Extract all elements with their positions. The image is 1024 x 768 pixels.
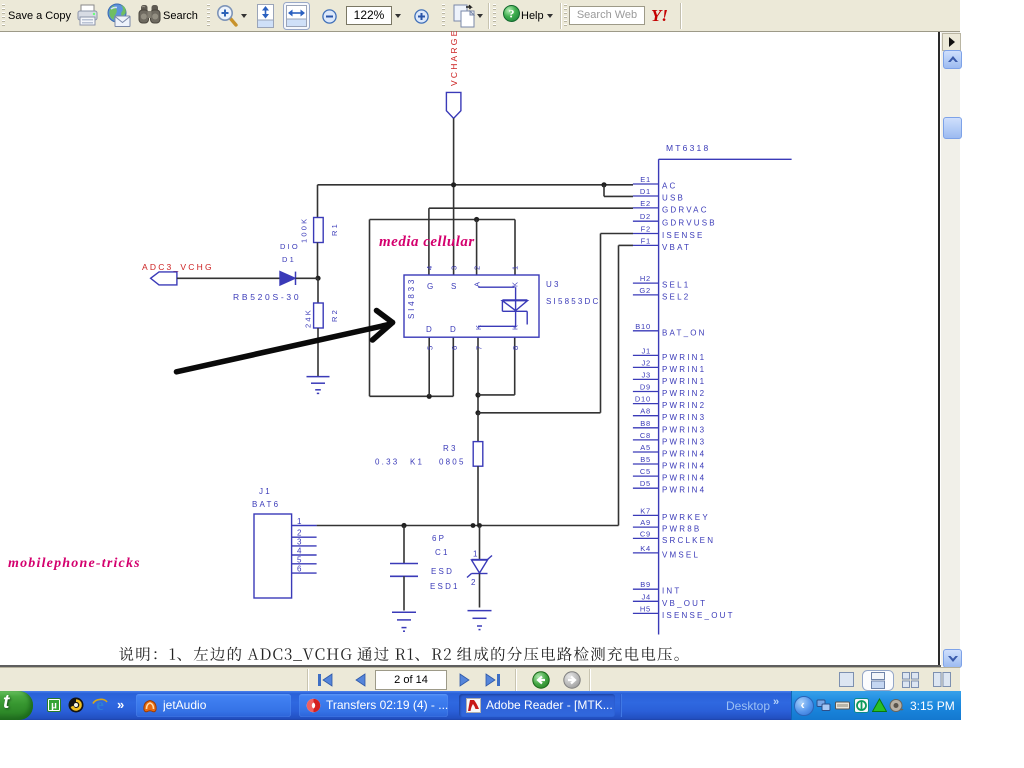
- svg-text:G2: G2: [639, 286, 651, 295]
- wire battery rail BAT+: [317, 525, 619, 527]
- MT6318 pin J4 VB_OUT: [633, 600, 659, 602]
- junction U3 pin2 on top edge: [474, 217, 479, 222]
- svg-text:24K: 24K: [304, 308, 313, 328]
- svg-text:SEL1: SEL1: [662, 281, 690, 290]
- wire C1 to ground: [403, 576, 405, 610]
- junction pin7/pin8: [475, 392, 480, 397]
- svg-text:D: D: [450, 325, 458, 334]
- svg-text:B5: B5: [640, 455, 651, 464]
- svg-text:2: 2: [471, 578, 478, 587]
- svg-text:J4: J4: [641, 592, 651, 601]
- svg-text:PWRIN1: PWRIN1: [662, 353, 706, 362]
- MT6318 pin K4 VMSEL: [633, 552, 659, 554]
- svg-text:BAT_ON: BAT_ON: [662, 328, 707, 337]
- svg-text:B10: B10: [635, 322, 651, 331]
- document white area: [0, 32, 938, 666]
- svg-text:B8: B8: [640, 419, 651, 428]
- svg-text:VB_OUT: VB_OUT: [662, 599, 707, 608]
- svg-text:5: 5: [426, 344, 435, 350]
- svg-text:5: 5: [297, 555, 304, 564]
- svg-text:D: D: [426, 325, 434, 334]
- MT6318 pin E2 GDRVAC: [633, 207, 659, 209]
- status bar: [0, 667, 960, 692]
- MT6318 pin H5 ISENSE_OUT: [633, 612, 659, 614]
- wire GDRVAC to U3 pin4: [429, 207, 633, 209]
- MT6318 pin B5 PWRIN4: [633, 463, 659, 465]
- svg-text:A: A: [473, 280, 482, 287]
- wire U3 pin6 down: [452, 337, 454, 396]
- svg-text:K4: K4: [640, 544, 651, 553]
- svg-text:PWRIN4: PWRIN4: [662, 486, 706, 495]
- resistor R1 body: [314, 218, 324, 243]
- U3 internal wires: [478, 286, 514, 288]
- MT6318 pin D2 GDRVUSB: [633, 220, 659, 222]
- svg-text:RB520S-30: RB520S-30: [233, 292, 301, 302]
- MT6318 pin D10 PWRIN2: [633, 403, 659, 405]
- svg-text:e: e: [96, 696, 104, 713]
- ground symbol under ESD1: [468, 610, 492, 612]
- capacitor C1 plates: [390, 563, 418, 565]
- MT6318 pin C8 PWRIN3: [633, 439, 659, 441]
- MT6318 pin F1 VBAT: [633, 244, 659, 246]
- svg-text:R1: R1: [330, 222, 339, 236]
- svg-text:J2: J2: [641, 358, 651, 367]
- svg-text:6: 6: [450, 344, 459, 350]
- svg-text:F1: F1: [641, 236, 651, 245]
- MT6318 pin H2 SEL1: [633, 282, 659, 284]
- svg-text:PWRIN3: PWRIN3: [662, 425, 706, 434]
- MT6318 pin A5 PWRIN4: [633, 451, 659, 453]
- MT6318 pin B10 BAT_ON: [633, 330, 659, 332]
- wire U3 pin7 down: [477, 337, 479, 413]
- svg-text:D1: D1: [640, 187, 651, 196]
- svg-text:PWR8B: PWR8B: [662, 525, 701, 534]
- wire ESD1 to ground: [479, 574, 481, 608]
- svg-text:F2: F2: [641, 225, 651, 234]
- junction AC/USB branch: [601, 182, 606, 187]
- svg-text:MT6318: MT6318: [666, 143, 710, 153]
- svg-text:A9: A9: [640, 518, 651, 527]
- svg-text:PWRIN4: PWRIN4: [662, 450, 706, 459]
- port symbol ADC3_VCHG: [151, 272, 177, 285]
- svg-text:AC: AC: [662, 182, 678, 191]
- ground symbol under R2: [307, 376, 330, 378]
- svg-text:PWRIN2: PWRIN2: [662, 389, 706, 398]
- U3 internal body diode: [502, 299, 527, 301]
- svg-text:DIO: DIO: [280, 242, 300, 251]
- MT6318 pin B8 PWRIN3: [633, 427, 659, 429]
- svg-text:3: 3: [297, 537, 304, 546]
- svg-text:6: 6: [297, 565, 304, 574]
- svg-text:J3: J3: [641, 370, 651, 379]
- wire rail to C1: [403, 526, 405, 564]
- svg-text:ESD: ESD: [431, 567, 454, 576]
- svg-text:7: 7: [475, 344, 484, 350]
- wire D1 to node: [296, 277, 318, 279]
- junction C1: [401, 523, 406, 528]
- MT6318 pin A9 PWR8B: [633, 526, 659, 528]
- svg-text:µ: µ: [51, 701, 57, 712]
- junction ESD1: [477, 523, 482, 528]
- wire R1 to node: [317, 243, 319, 279]
- MT6318 pin D9 PWRIN2: [633, 391, 659, 393]
- svg-text:A5: A5: [640, 443, 651, 452]
- MT6318 pin J1 PWRIN1: [633, 354, 659, 356]
- svg-text:INT: INT: [662, 587, 682, 596]
- svg-text:VCHARGE: VCHARGE: [449, 29, 459, 86]
- wire U3 pin5 down: [428, 337, 430, 396]
- wire VBAT net: [619, 244, 634, 246]
- resistor R3 body: [473, 442, 483, 467]
- svg-text:4: 4: [425, 264, 434, 270]
- svg-text:A8: A8: [640, 407, 651, 416]
- wire U3 pin8 down and left: [514, 337, 516, 395]
- wire U3 pin2 vertical: [476, 220, 478, 276]
- svg-text:H5: H5: [640, 604, 651, 613]
- svg-text:ISENSE_OUT: ISENSE_OUT: [662, 611, 735, 620]
- connector J1 pins 1-6: [292, 525, 317, 527]
- Adobe Reader toolbar: [0, 0, 960, 32]
- svg-text:D1: D1: [282, 255, 296, 264]
- junction R1/R2/D1: [315, 276, 320, 281]
- MT6318 pin E1 AC: [633, 183, 659, 185]
- svg-text:0805: 0805: [439, 458, 466, 467]
- MT6318 pin C5 PWRIN4: [633, 475, 659, 477]
- svg-text:K: K: [511, 280, 520, 287]
- svg-text:USB: USB: [662, 194, 685, 203]
- svg-text:J1: J1: [641, 346, 651, 355]
- wire USB branch: [603, 185, 605, 197]
- svg-text:3: 3: [450, 264, 459, 270]
- svg-text:6P: 6P: [432, 534, 446, 543]
- svg-text:K1: K1: [410, 458, 424, 467]
- zener diode ESD1: [472, 559, 488, 561]
- junction R3: [471, 523, 476, 528]
- svg-text:0.33: 0.33: [375, 458, 399, 467]
- svg-text:ADC3_VCHG: ADC3_VCHG: [142, 262, 214, 272]
- svg-text:ISENSE: ISENSE: [662, 231, 705, 240]
- wire rail to ESD1: [479, 526, 481, 560]
- MT6318 body edge: [659, 158, 792, 160]
- caption Chinese text: [119, 647, 679, 661]
- svg-text:mobilephone-tricks: mobilephone-tricks: [8, 556, 141, 571]
- svg-text:ESD1: ESD1: [430, 582, 460, 591]
- wire VCHARGE vertical to U3 pin3: [453, 118, 455, 275]
- svg-text:8: 8: [511, 344, 520, 350]
- junction VCHARGE/AC rail: [451, 182, 456, 187]
- svg-text:U3: U3: [546, 280, 561, 289]
- svg-text:B9: B9: [640, 580, 651, 589]
- svg-text:D5: D5: [640, 479, 651, 488]
- svg-text:E1: E1: [640, 175, 651, 184]
- annotation arrow pointing at U3: [177, 325, 390, 372]
- svg-text:K7: K7: [640, 506, 651, 515]
- svg-text:R2: R2: [330, 308, 339, 322]
- svg-text:1: 1: [473, 550, 480, 559]
- connector J1 body: [254, 514, 292, 598]
- svg-text:J1: J1: [259, 487, 272, 496]
- wire pin7 node to R3: [477, 413, 479, 442]
- svg-text:PWRIN2: PWRIN2: [662, 401, 706, 410]
- wire R2 to ground: [317, 328, 319, 377]
- wire R3 to battery rail: [477, 466, 479, 525]
- MT6318 pin D1 USB: [633, 195, 659, 197]
- power port symbol VCHARGE: [446, 92, 461, 118]
- MT6318 pin D5 PWRIN4: [633, 487, 659, 489]
- svg-text:PWRIN1: PWRIN1: [662, 377, 706, 386]
- ground symbol under C1: [392, 611, 416, 613]
- junction U3 pin5 on bottom edge: [427, 394, 432, 399]
- svg-text:C1: C1: [435, 548, 450, 557]
- MT6318 pin F2 ISENSE: [633, 233, 659, 235]
- svg-text:R3: R3: [443, 444, 458, 453]
- svg-text:PWRIN4: PWRIN4: [662, 462, 706, 471]
- svg-text:GDRVUSB: GDRVUSB: [662, 219, 717, 228]
- wire down to R1: [317, 185, 319, 218]
- svg-text:H2: H2: [640, 274, 651, 283]
- op-amp U3 SI4833 body: [404, 275, 539, 337]
- MT6318 pin A8 PWRIN3: [633, 415, 659, 417]
- MT6318 pin C9 SRCLKEN: [633, 537, 659, 539]
- svg-text:D2: D2: [640, 212, 651, 221]
- svg-text:GDRVAC: GDRVAC: [662, 205, 709, 214]
- MT6318 pin G2 SEL2: [633, 294, 659, 296]
- diode D1 (RB520S-30): [280, 272, 295, 285]
- svg-text:2: 2: [297, 529, 304, 538]
- svg-text:100K: 100K: [300, 217, 309, 243]
- svg-text:PWRKEY: PWRKEY: [662, 513, 710, 522]
- svg-text:SRCLKEN: SRCLKEN: [662, 536, 715, 545]
- MT6318 pin J2 PWRIN1: [633, 366, 659, 368]
- resistor R2 body: [314, 303, 324, 328]
- svg-text:C5: C5: [640, 467, 651, 476]
- svg-text:2: 2: [473, 264, 482, 270]
- svg-text:SI4833: SI4833: [407, 277, 416, 319]
- svg-text:PWRIN3: PWRIN3: [662, 437, 706, 446]
- svg-text:VBAT: VBAT: [662, 243, 691, 252]
- wire AC horizontal rail: [318, 184, 634, 186]
- svg-text:BAT6: BAT6: [252, 500, 280, 509]
- svg-text:C9: C9: [640, 529, 651, 538]
- wire net box (pins 1,2,5,6 of U3): [370, 219, 516, 221]
- svg-text:D10: D10: [635, 395, 651, 404]
- wire ISENSE net: [601, 233, 634, 235]
- wire node to R2: [317, 278, 319, 303]
- svg-text:media cellular: media cellular: [379, 234, 475, 250]
- wire port to D1: [177, 277, 280, 279]
- svg-text:SI5853DC: SI5853DC: [546, 297, 601, 306]
- MT6318 pin J3 PWRIN1: [633, 378, 659, 380]
- svg-text:E2: E2: [640, 199, 651, 208]
- svg-text:G: G: [427, 282, 435, 291]
- taskbar: [0, 691, 960, 720]
- svg-text:4: 4: [297, 547, 304, 556]
- svg-text:D9: D9: [640, 383, 651, 392]
- svg-text:C8: C8: [640, 431, 651, 440]
- svg-text:PWRIN3: PWRIN3: [662, 413, 706, 422]
- svg-text:PWRIN1: PWRIN1: [662, 365, 706, 374]
- svg-text:1: 1: [297, 517, 304, 526]
- svg-text:VMSEL: VMSEL: [662, 550, 700, 559]
- MT6318 pin K7 PWRKEY: [633, 514, 659, 516]
- svg-text:S: S: [451, 282, 459, 291]
- svg-text:1: 1: [511, 264, 520, 270]
- svg-text:PWRIN4: PWRIN4: [662, 474, 706, 483]
- junction pin7/ISENSE: [475, 410, 480, 415]
- MT6318 pin B9 INT: [633, 588, 659, 590]
- svg-text:SEL2: SEL2: [662, 292, 690, 301]
